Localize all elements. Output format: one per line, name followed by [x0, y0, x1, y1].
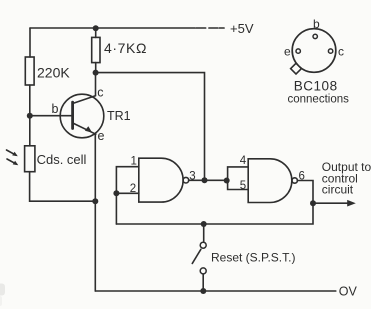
svg-text:3: 3: [189, 171, 195, 183]
svg-text:Reset (S.P.S.T.): Reset (S.P.S.T.): [211, 251, 295, 265]
svg-text:+5V: +5V: [230, 21, 254, 36]
svg-text:b: b: [313, 17, 320, 31]
svg-text:6: 6: [299, 171, 305, 183]
svg-text:c: c: [338, 45, 344, 59]
svg-text:4·7KΩ: 4·7KΩ: [104, 40, 147, 56]
svg-text:1: 1: [131, 155, 137, 167]
svg-text:c: c: [97, 86, 103, 100]
svg-text:2: 2: [130, 183, 136, 195]
svg-text:4: 4: [240, 155, 247, 167]
svg-text:circuit: circuit: [322, 183, 354, 197]
svg-text:BC108: BC108: [294, 79, 338, 94]
svg-text:220K: 220K: [37, 65, 70, 81]
svg-text:5: 5: [240, 180, 246, 192]
svg-text:Cds. cell: Cds. cell: [37, 152, 87, 167]
svg-text:connections: connections: [288, 93, 350, 105]
svg-text:TR1: TR1: [107, 109, 131, 123]
svg-text:OV: OV: [339, 284, 358, 298]
svg-text:e: e: [98, 129, 105, 143]
svg-text:b: b: [52, 102, 59, 116]
svg-text:e: e: [284, 45, 291, 59]
